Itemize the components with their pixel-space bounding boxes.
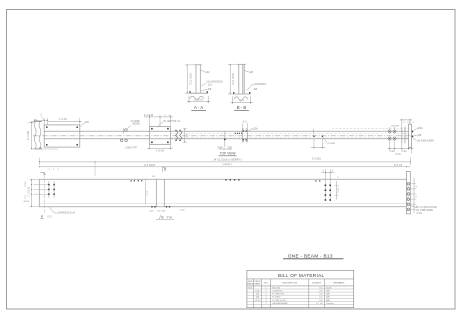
- svg-text:REMARKS: REMARKS: [334, 282, 345, 285]
- svg-text:0'-10: 0'-10: [395, 154, 401, 156]
- svg-text:W12X26: W12X26: [272, 287, 281, 289]
- svg-text:p48: p48: [85, 121, 90, 124]
- svg-text:B - B: B - B: [237, 105, 247, 110]
- svg-text:SHIM ASSEMBLY: SHIM ASSEMBLY: [272, 302, 289, 305]
- svg-text:p22b: p22b: [252, 127, 258, 130]
- svg-text:TOP VIEW: TOP VIEW: [220, 152, 237, 156]
- svg-text:2 1/2: 2 1/2: [416, 212, 422, 215]
- svg-text:0'-11 13/16: 0'-11 13/16: [232, 72, 235, 84]
- svg-text:TYP.: TYP.: [167, 215, 173, 219]
- svg-text:QTY: QTY: [264, 283, 269, 285]
- svg-text:p48: p48: [249, 71, 254, 74]
- svg-text:2'-0 3/16: 2'-0 3/16: [312, 158, 322, 160]
- svg-text:3 1/2: 3 1/2: [25, 181, 27, 187]
- svg-text:(4) 3/4Ø: (4) 3/4Ø: [391, 126, 399, 128]
- svg-text:LLV: LLV: [208, 84, 213, 87]
- svg-text:PL 3/8X 10 5/8: PL 3/8X 10 5/8: [272, 300, 286, 302]
- svg-text:A325N: A325N: [132, 123, 140, 126]
- svg-text:3/8: 3/8: [208, 88, 212, 91]
- svg-text:BILL OF MATERIAL: BILL OF MATERIAL: [278, 273, 325, 278]
- svg-text:0'-11 5/8: 0'-11 5/8: [27, 130, 30, 140]
- svg-text:(VERIFY): (VERIFY): [223, 164, 233, 166]
- svg-text:L4X3X5/16: L4X3X5/16: [254, 83, 267, 86]
- svg-text:(2) 3/4Ø: (2) 3/4Ø: [327, 143, 335, 145]
- svg-text:ONE - BEAM - B13: ONE - BEAM - B13: [288, 253, 333, 258]
- svg-text:B: B: [161, 215, 163, 219]
- svg-text:DESCRIPTION: DESCRIPTION: [282, 283, 297, 285]
- svg-text:L4X3X5/16: L4X3X5/16: [272, 291, 283, 293]
- svg-text:5 1/2: 5 1/2: [338, 187, 340, 193]
- svg-text:2'-10 7/16: 2'-10 7/16: [220, 147, 232, 151]
- svg-text:2'-0 13/16: 2'-0 13/16: [144, 164, 156, 167]
- svg-text:A1-36: A1-36: [326, 286, 332, 289]
- svg-text:2 1/2: 2 1/2: [401, 151, 407, 153]
- svg-text:2-3/4: 2-3/4: [180, 209, 186, 211]
- svg-text:0'-5 1/2: 0'-5 1/2: [394, 164, 403, 167]
- svg-text:p22b: p22b: [417, 127, 423, 130]
- svg-text:0'-6 1/2: 0'-6 1/2: [194, 99, 203, 102]
- svg-text:p22: p22: [205, 71, 210, 74]
- svg-text:MARK: MARK: [255, 283, 261, 286]
- svg-text:1'-0 3/4: 1'-0 3/4: [156, 150, 165, 153]
- svg-text:p48: p48: [417, 134, 422, 137]
- svg-text:PL 3/8X3 3/8: PL 3/8X3 3/8: [272, 294, 284, 296]
- svg-text:3/8 PL: 3/8 PL: [23, 201, 30, 203]
- svg-text:1'-1 15/16: 1'-1 15/16: [28, 186, 30, 197]
- svg-text:Painting: Painting: [326, 302, 333, 305]
- svg-text:0'-11 13/16: 0'-11 13/16: [189, 72, 192, 84]
- svg-text:PL 3/8X7: PL 3/8X7: [272, 297, 281, 299]
- svg-text:PL 3/8X7X0'-11: PL 3/8X7X0'-11: [164, 120, 181, 123]
- svg-text:2'-1 3/16: 2'-1 3/16: [144, 114, 154, 117]
- svg-text:1'-2 3/4: 1'-2 3/4: [59, 119, 67, 121]
- svg-text:(4) 3/4Ø A325N: (4) 3/4Ø A325N: [417, 140, 434, 143]
- svg-text:MARK: MARK: [247, 283, 253, 286]
- svg-text:24'-11 15/16 ± (VERIFY): 24'-11 15/16 ± (VERIFY): [213, 158, 241, 162]
- svg-text:LENGTH: LENGTH: [312, 283, 321, 285]
- svg-text:0'-7: 0'-7: [240, 100, 245, 103]
- svg-text:2-9/16 TYP: 2-9/16 TYP: [125, 147, 137, 149]
- svg-text:A - A: A - A: [194, 105, 203, 110]
- svg-text:1'-1 1/4: 1'-1 1/4: [316, 303, 323, 305]
- svg-text:1'-0 5/16: 1'-0 5/16: [157, 211, 166, 213]
- svg-text:3/8: 3/8: [254, 88, 258, 91]
- svg-text:2 1/2: 2 1/2: [389, 151, 395, 153]
- svg-text:B: B: [164, 168, 166, 172]
- svg-text:L6X4X5/16 LLH: L6X4X5/16 LLH: [57, 212, 75, 215]
